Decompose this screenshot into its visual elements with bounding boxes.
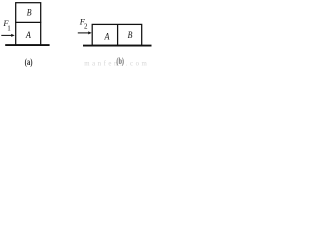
figure (a) outer box of stacked blocks [16,3,41,45]
svg-text:1: 1 [7,24,11,32]
svg-text:(a): (a) [25,57,33,68]
figure (a) divider line between block B and block A [15,21,41,23]
ground line (figure a) [5,44,49,46]
figure (b) divider line between block A and block B [117,24,119,45]
ground line (figure b) [83,45,152,47]
force arrow F2 (figure b) [78,32,89,34]
force arrow F1 (figure a) [1,34,11,36]
svg-text:B: B [128,31,133,41]
svg-text:A: A [104,32,110,42]
figure (b) outer box of side-by-side blocks [92,24,142,45]
svg-text:B: B [27,9,32,19]
background [0,0,152,69]
svg-text:2: 2 [84,23,88,31]
svg-text:(b): (b) [116,56,124,66]
svg-text:A: A [25,31,31,41]
